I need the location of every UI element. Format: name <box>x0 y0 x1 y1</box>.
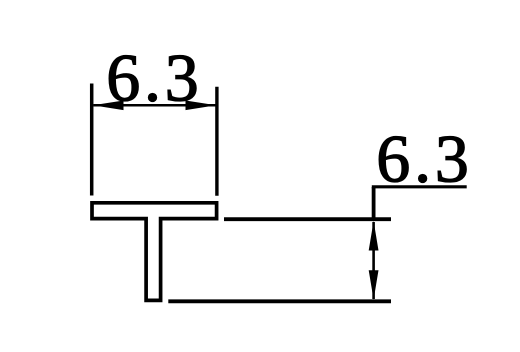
object line lower right <box>168 299 391 303</box>
arrowhead down <box>369 270 379 300</box>
extension line left <box>90 84 94 196</box>
T-profile outline <box>92 203 217 301</box>
arrowhead left <box>93 101 124 111</box>
arrowhead up <box>369 221 379 251</box>
leader vertical right <box>372 187 376 219</box>
dimension line vertical right <box>372 222 375 299</box>
arrowhead right <box>186 101 217 111</box>
svg-text:6.3: 6.3 <box>106 40 202 116</box>
extension line right <box>215 87 218 196</box>
leader horizontal right <box>372 185 467 188</box>
svg-text:6.3: 6.3 <box>376 120 472 196</box>
object line upper right <box>224 217 391 221</box>
dimension line top <box>94 104 216 107</box>
